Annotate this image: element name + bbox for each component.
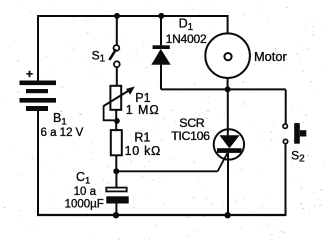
wire P1 to R1 (115, 111, 117, 131)
wire left rail upper (37, 15, 39, 81)
svg-text:S1: S1 (92, 49, 105, 65)
wire left rail lower (37, 111, 39, 216)
node C1 / bottom rail (113, 212, 119, 218)
svg-text:6 a 12 V: 6 a 12 V (41, 127, 84, 139)
wire SCR anode (227, 89, 229, 136)
svg-text:1 MΩ: 1 MΩ (126, 103, 160, 117)
svg-text:S2: S2 (291, 149, 305, 165)
potentiometer P1 (104, 86, 135, 121)
wire bottom rail (37, 214, 286, 216)
wire S1 branch from top rail (116, 16, 118, 45)
svg-text:+: + (26, 67, 33, 81)
node motor / rail (225, 86, 231, 92)
capacitor C1 (106, 188, 128, 204)
node R1 / C1 / gate (113, 168, 119, 174)
node P1 wiper / R1 (114, 118, 120, 124)
diode D1 (151, 45, 170, 64)
node SCR / bottom rail (224, 212, 230, 218)
node top rail / S1 branch (114, 13, 120, 19)
wire node to C1 (115, 171, 117, 187)
svg-text:Motor: Motor (254, 49, 287, 64)
motor M1 (205, 33, 250, 78)
svg-text:D1: D1 (179, 17, 193, 33)
switch S1 (109, 45, 119, 67)
wire gate line horizontal (116, 170, 217, 172)
svg-text:B1: B1 (53, 111, 67, 128)
wire R1 to gate node (115, 155, 117, 171)
wire D1 cathode down (160, 64, 162, 90)
svg-text:1N4002: 1N4002 (166, 32, 207, 46)
wire S1 to P1 (116, 67, 118, 85)
switch S2 pushbutton (283, 123, 306, 144)
node top rail / D1 branch (158, 13, 164, 19)
wire motor bottom horizontal (161, 88, 286, 90)
svg-text:1000µF: 1000µF (65, 199, 104, 211)
wire top rail (38, 15, 228, 17)
wire SCR cathode to bottom rail (227, 153, 229, 215)
svg-text:10 a: 10 a (74, 186, 97, 198)
wire C1 to bottom rail (115, 204, 117, 216)
resistor R1 (111, 130, 122, 155)
svg-text:C1: C1 (76, 170, 90, 187)
wire gate diagonal to SCR (218, 153, 228, 171)
wire motor to node (227, 78, 229, 89)
SCR TIC106 (214, 129, 244, 159)
svg-text:10 kΩ: 10 kΩ (125, 144, 161, 158)
wire S2 to bottom rail (285, 144, 287, 216)
svg-text:TIC106: TIC106 (171, 129, 210, 143)
battery B1 (20, 81, 57, 112)
wire right rail to S2 (285, 89, 287, 123)
wire top rail corner to motor (227, 15, 229, 34)
svg-text:R1: R1 (134, 130, 150, 144)
wire D1 anode from top rail (160, 16, 162, 45)
